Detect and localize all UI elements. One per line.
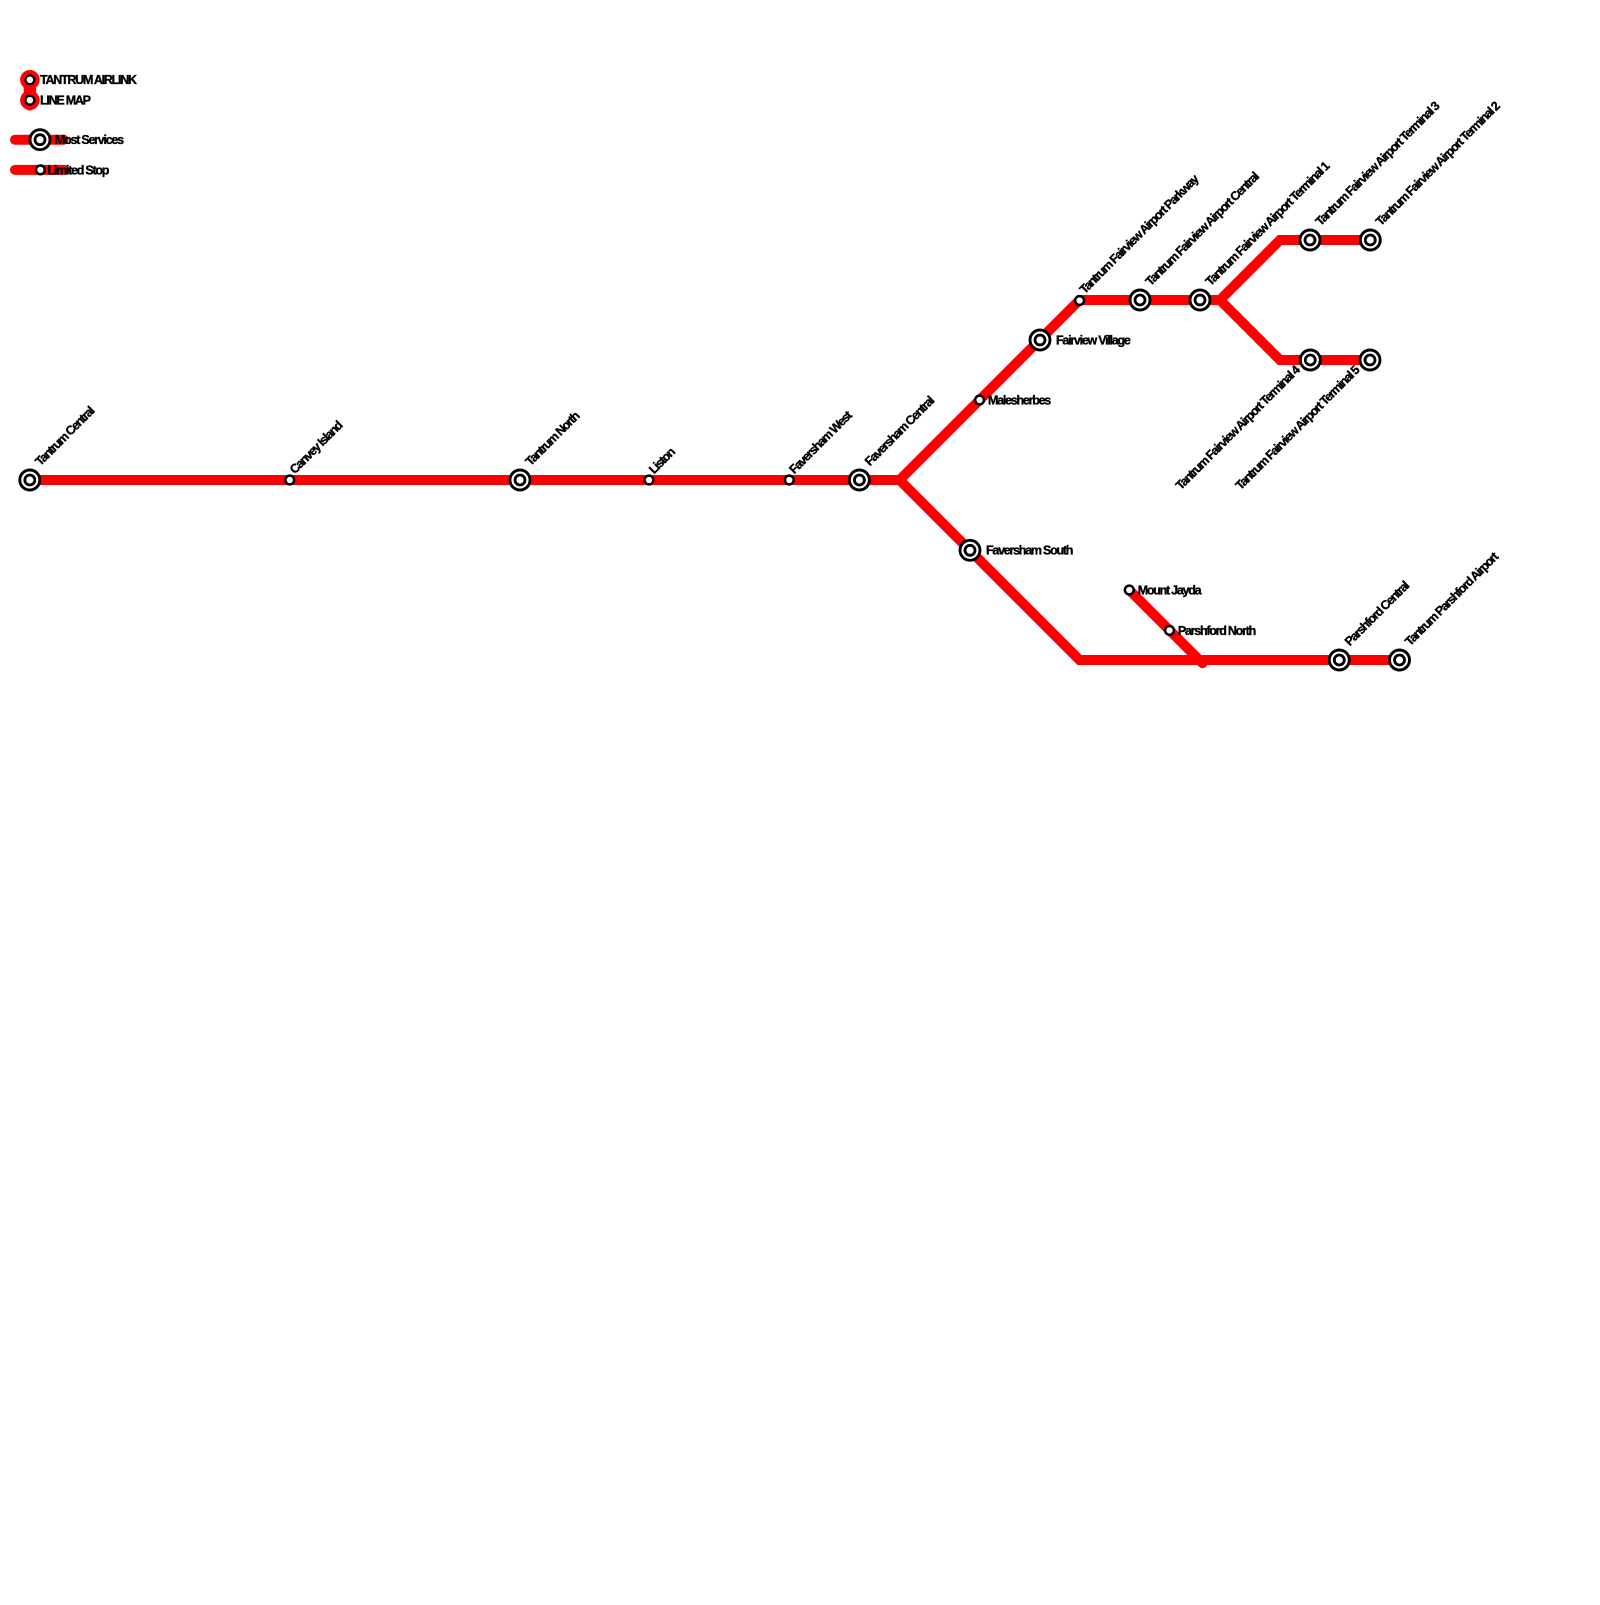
- svg-text:Most Services: Most Services: [55, 133, 124, 147]
- svg-text:Fairview Village: Fairview Village: [1056, 333, 1131, 347]
- svg-text:TANTRUM AIRLINK: TANTRUM AIRLINK: [40, 73, 137, 87]
- Fairview Village: [1030, 330, 1050, 350]
- Liston: [645, 476, 654, 485]
- legend sample stop halo upper: [20, 70, 40, 90]
- Parshford North: [1165, 626, 1174, 635]
- legend limited-stop line: [15, 165, 64, 175]
- svg-text:Mount Jayda: Mount Jayda: [1138, 583, 1203, 597]
- svg-text:Malesherbes: Malesherbes: [988, 393, 1051, 407]
- svg-text:Faversham South: Faversham South: [986, 544, 1073, 558]
- legend most-services symbol: [30, 130, 50, 150]
- main line: [30, 475, 900, 485]
- Faversham Central: [849, 470, 869, 490]
- legend most-services line: [15, 135, 64, 145]
- Mount Jayda spur: [1129, 590, 1202, 663]
- Tantrum Fairview Airport Central: [1130, 290, 1150, 310]
- Faversham South: [960, 540, 980, 560]
- Tantrum Parshford Airport: [1390, 650, 1410, 670]
- legend sample stop upper: [26, 75, 35, 84]
- Tantrum Fairview Airport Parkway: [1075, 296, 1084, 305]
- Tantrum Fairview Airport Terminal 5: [1360, 350, 1380, 370]
- Malesherbes: [975, 396, 984, 405]
- Tantrum North: [510, 470, 530, 490]
- Tantrum Fairview Airport Terminal 1: [1190, 290, 1210, 310]
- Tantrum Fairview Airport Terminal 4: [1300, 350, 1320, 370]
- legend limited-stop symbol: [36, 166, 45, 175]
- svg-text:LINE MAP: LINE MAP: [40, 93, 91, 107]
- Faversham West: [785, 476, 794, 485]
- Canvey Island: [285, 476, 294, 485]
- legend sample stop halo lower: [20, 90, 40, 110]
- svg-text:Limited Stop: Limited Stop: [48, 163, 110, 177]
- svg-text:Parshford North: Parshford North: [1178, 624, 1256, 638]
- NE branch to airport upper terminals: [900, 240, 1371, 480]
- SE branch to Parshford: [900, 480, 1400, 660]
- legend sample stop lower: [26, 96, 35, 105]
- legend sample line: [24, 76, 36, 104]
- Parshford Central: [1329, 650, 1349, 670]
- Tantrum Fairview Airport Terminal 2: [1360, 230, 1380, 250]
- airport lower terminals branch: [1220, 300, 1370, 360]
- Mount Jayda: [1125, 586, 1134, 595]
- Tantrum Fairview Airport Terminal 3: [1300, 230, 1320, 250]
- Tantrum Central: [20, 470, 40, 490]
